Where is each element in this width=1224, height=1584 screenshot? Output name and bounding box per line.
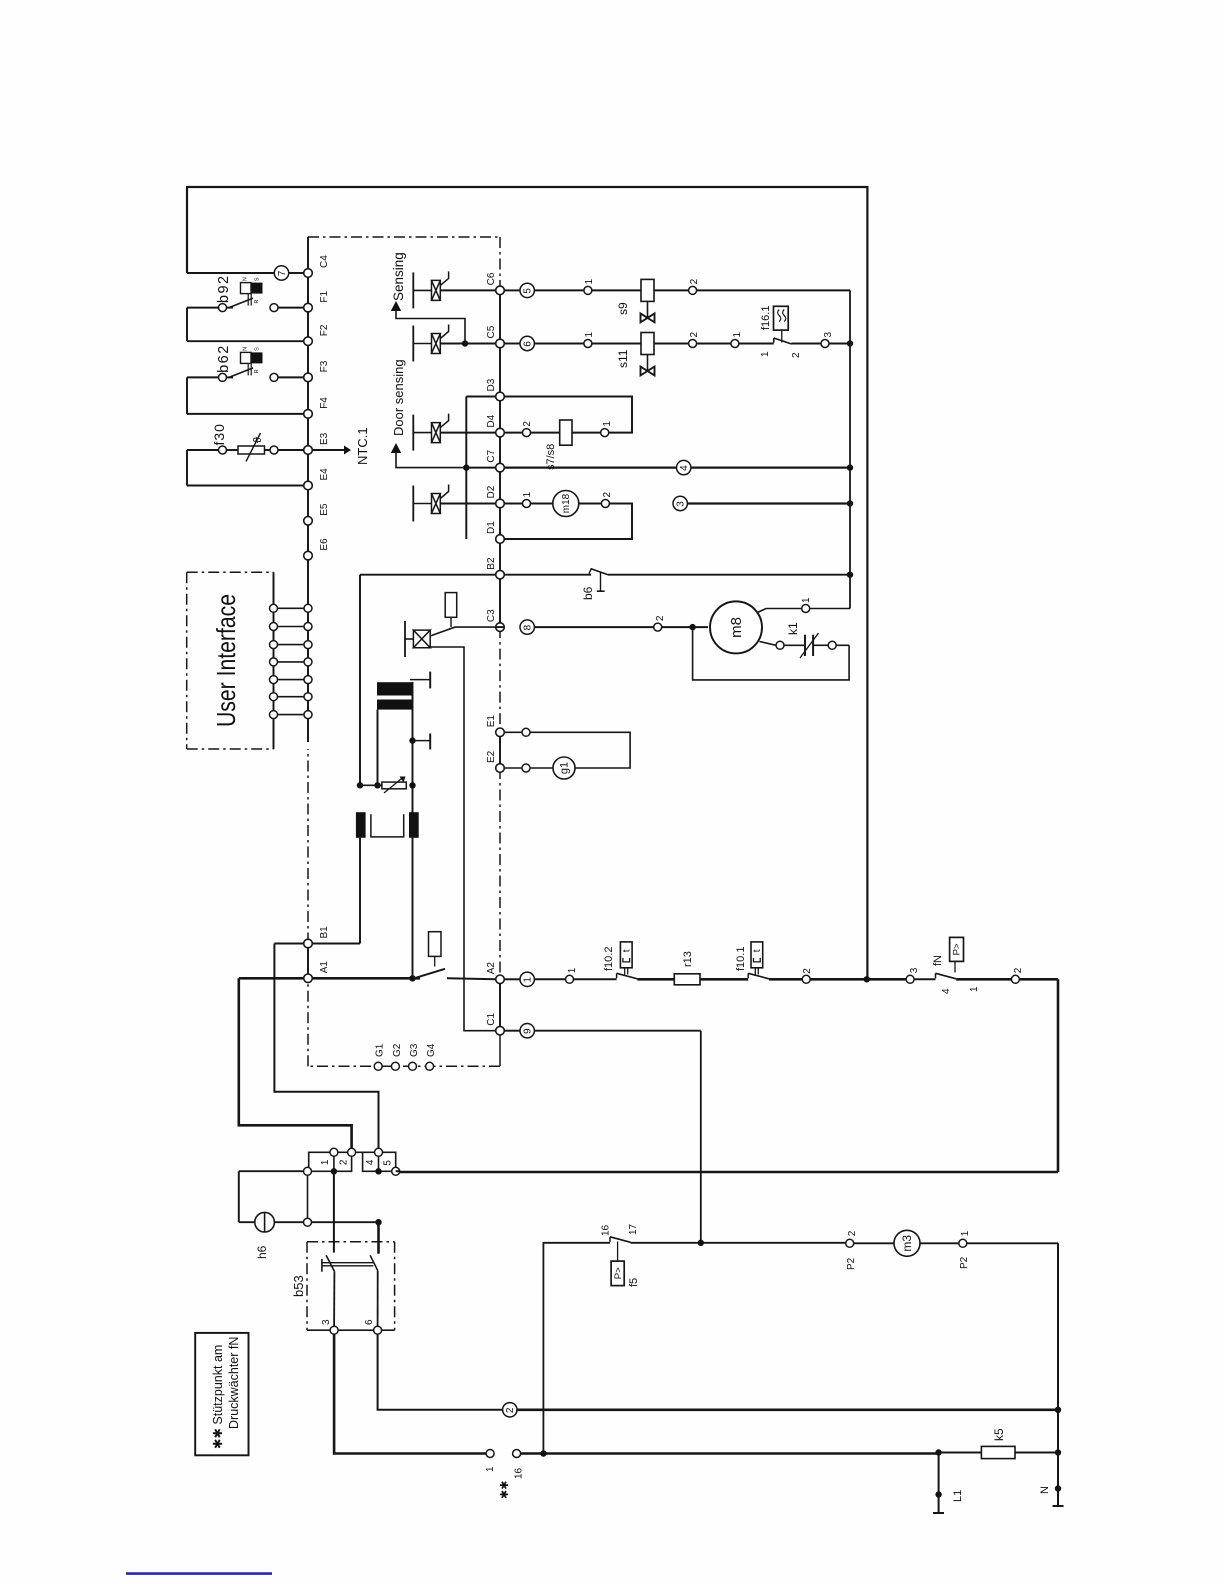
wire E2 row <box>504 767 522 769</box>
terminal b53-6 <box>374 1326 382 1334</box>
wire preset row <box>360 784 382 786</box>
junction C5 right <box>847 340 853 346</box>
switch f10.2 contact arm <box>616 973 618 978</box>
terminal C4 <box>304 269 313 278</box>
junction node3 right <box>847 500 853 506</box>
wire UI ribbon conductor 3 <box>278 644 305 646</box>
svg-text:2: 2 <box>791 352 802 358</box>
terminal C5 <box>496 339 505 348</box>
svg-text:5: 5 <box>383 1160 394 1166</box>
svg-text:E4: E4 <box>319 468 330 481</box>
wire b53 contact2 feed <box>377 1222 380 1254</box>
svg-text:P2: P2 <box>846 1257 857 1270</box>
wire D3-D1 left link <box>465 397 467 540</box>
resistor C3 snubber <box>445 593 457 618</box>
terminal C3 <box>496 623 505 632</box>
pin circle m3-1 <box>959 1239 967 1247</box>
svg-text:b6: b6 <box>581 586 595 600</box>
wire h6 branch <box>239 1170 304 1172</box>
pin circle b92 left <box>219 304 227 312</box>
terminal G2 <box>391 1062 399 1070</box>
svg-text:Druckwächter fN: Druckwächter fN <box>227 1337 241 1429</box>
terminal E2 <box>496 764 505 773</box>
svg-text:8: 8 <box>523 624 534 630</box>
terminal E4 <box>304 481 313 490</box>
pin circle b92 right <box>270 304 278 312</box>
triac for D4 output <box>412 415 414 451</box>
svg-text:1: 1 <box>732 332 743 338</box>
svg-text:s11: s11 <box>616 349 630 368</box>
svg-text:2: 2 <box>689 332 700 338</box>
svg-text:m3: m3 <box>900 1235 914 1252</box>
svg-text:C4: C4 <box>319 255 330 268</box>
wire transformer left winding lead <box>377 710 379 786</box>
terminal C7 <box>496 463 505 472</box>
terminal C6 <box>496 286 505 295</box>
svg-text:B1: B1 <box>319 926 330 939</box>
svg-text:C5: C5 <box>486 325 497 338</box>
wire A2 fN pivot <box>914 978 935 980</box>
svg-text:R: R <box>254 369 260 373</box>
wire C5 row <box>504 343 520 345</box>
svg-text:C1: C1 <box>486 1012 497 1025</box>
terminal F4 <box>304 410 313 419</box>
junction preset row mid <box>374 782 380 788</box>
switch f16.1 contact arm <box>773 338 775 343</box>
junction block bottom-4 <box>375 1168 381 1174</box>
svg-text:F4: F4 <box>319 397 330 409</box>
transformer primary winding bar1 <box>377 682 413 695</box>
terminal A1 <box>304 974 313 983</box>
wire D3 row <box>466 396 496 398</box>
wire UI ribbon conductor 6 <box>278 696 305 698</box>
triac for D2 output <box>412 486 414 522</box>
terminal C1 <box>496 1026 505 1035</box>
wire k1 loop <box>836 644 849 646</box>
transformer core terminal mid <box>409 737 415 743</box>
wire m8 top to node1 <box>758 609 802 613</box>
terminal D1 <box>496 535 505 544</box>
wire C6 row <box>504 289 520 291</box>
svg-text:P>: P> <box>952 943 963 955</box>
transformer secondary winding bar right <box>409 812 419 838</box>
wire B2 row <box>360 574 496 576</box>
svg-text:1: 1 <box>320 1159 331 1165</box>
svg-text:A1: A1 <box>319 961 330 974</box>
wire node2 row <box>517 1409 1058 1412</box>
junction L1 <box>935 1449 941 1455</box>
wire k5 row <box>939 1452 982 1454</box>
wire b53-3 to bottom row <box>334 1334 486 1453</box>
svg-text:D4: D4 <box>486 414 497 427</box>
svg-text:b92: b92 <box>216 274 232 303</box>
junction block bottom-2 <box>331 1168 337 1174</box>
switch b53 contact 2 <box>370 1255 378 1270</box>
svg-text:3: 3 <box>823 332 834 338</box>
wire UI ribbon conductor 2 <box>278 626 305 628</box>
motor m3 <box>894 1230 920 1256</box>
svg-text:7: 7 <box>277 270 288 276</box>
connector block 1-2 <box>309 1152 352 1171</box>
junction C5 sensing <box>462 340 468 346</box>
triac for C3 (power) <box>404 621 406 657</box>
terminal E3 <box>304 446 313 455</box>
pin circle k1 left <box>776 641 784 649</box>
wire secondary link <box>371 814 404 837</box>
svg-text:E5: E5 <box>319 503 330 516</box>
transformer core terminal top <box>410 679 430 681</box>
valve symbol s11 <box>647 355 649 372</box>
switch b92 reed/magnet symbol <box>241 283 252 294</box>
svg-text:1: 1 <box>584 278 595 284</box>
terminal B2 <box>496 570 505 579</box>
pin circle fN-3 <box>906 975 914 983</box>
pin circle m8-1 <box>802 605 810 613</box>
terminal b53-3 <box>330 1326 338 1334</box>
igniter g1 <box>553 757 575 779</box>
svg-text:D2: D2 <box>486 485 497 498</box>
terminal N <box>1057 1453 1059 1489</box>
junction A2 border <box>864 976 870 982</box>
resistor r13 <box>674 974 700 985</box>
junction preset row right <box>409 782 415 788</box>
node 4 <box>677 460 691 474</box>
pin circle m18-1 <box>523 500 531 508</box>
svg-text:E1: E1 <box>486 715 497 728</box>
switch b6 contact arm <box>591 569 608 575</box>
svg-text:A2: A2 <box>486 962 497 975</box>
svg-text:N: N <box>243 347 249 351</box>
wire f30 loop <box>187 449 219 451</box>
node 9 <box>520 1023 534 1037</box>
coil s9 <box>641 279 654 301</box>
wire triac-D4 to terminal <box>440 432 496 434</box>
thermal cutout f30 body <box>238 446 265 454</box>
wire m3 row b <box>920 1242 959 1244</box>
svg-text:1: 1 <box>801 597 812 603</box>
wire f5 row <box>631 1242 701 1244</box>
wire B2 left drop <box>359 575 361 786</box>
wire f5 left drop <box>543 1243 610 1454</box>
wire C4 row <box>187 272 275 274</box>
switch fN contact arm <box>935 973 937 978</box>
pin circle s11-2 <box>689 340 697 348</box>
svg-text:S: S <box>255 347 261 351</box>
terminal B1 <box>304 939 313 948</box>
valve symbol s9 <box>647 301 649 318</box>
svg-text:✱✱ Stützpunkt am: ✱✱ Stützpunkt am <box>211 1345 225 1449</box>
interference suppressor k5 <box>981 1446 1015 1458</box>
junction h6-b53 line <box>375 1219 381 1225</box>
main control board outline (dash-dot) <box>308 236 500 238</box>
wire A2 row segment4 <box>769 978 802 981</box>
terminal E6 <box>304 551 313 560</box>
svg-text:b62: b62 <box>216 344 232 373</box>
pin circle f16.1-out <box>821 340 829 348</box>
pin circle s7s8-2 <box>523 429 531 437</box>
svg-text:m18: m18 <box>561 493 572 513</box>
svg-text:6: 6 <box>523 341 534 347</box>
terminal D2 <box>496 499 505 508</box>
svg-text:E2: E2 <box>486 750 497 763</box>
wire b53-6 to node2 <box>378 1334 505 1410</box>
switch b53 contact 1 <box>326 1255 335 1271</box>
svg-text:P>: P> <box>613 1267 624 1279</box>
pin circle f10.2 in <box>566 975 574 983</box>
wire b62 loop <box>187 376 219 378</box>
wire triac-C5 to terminal <box>440 343 496 345</box>
motor m18 <box>553 491 579 517</box>
triac for C6 output <box>412 272 414 308</box>
svg-text:N: N <box>243 277 249 281</box>
terminal D4 <box>496 428 505 437</box>
svg-text:1: 1 <box>485 1466 496 1472</box>
pin circle m3-2 <box>846 1239 854 1247</box>
junction f5 drop <box>540 1450 546 1456</box>
svg-text:G4: G4 <box>426 1043 437 1057</box>
pin circle block top-2 <box>348 1148 356 1156</box>
svg-text:f10.1: f10.1 <box>735 947 747 971</box>
svg-text:h6: h6 <box>255 1245 269 1259</box>
wire A1 row <box>239 977 304 980</box>
terminal D3 <box>496 392 505 401</box>
svg-text:F2: F2 <box>319 324 330 336</box>
svg-text:3: 3 <box>909 967 920 973</box>
svg-text:ϑ: ϑ <box>252 437 264 443</box>
wire block1 drop <box>307 1175 309 1218</box>
door switch b53 outline (dash-dot) <box>307 1241 395 1243</box>
wire NTC.1 arrow <box>312 449 344 451</box>
user interface board outline (dash-dot) <box>186 572 188 749</box>
svg-text:NTC.1: NTC.1 <box>355 427 370 465</box>
wire right inner vertical <box>849 290 851 608</box>
wire gate vertical <box>430 647 496 1031</box>
svg-text:1: 1 <box>969 986 980 992</box>
svg-text:3: 3 <box>321 1319 332 1325</box>
svg-text:C6: C6 <box>486 272 497 285</box>
terminal G3 <box>409 1062 417 1070</box>
terminal F2 <box>304 337 313 346</box>
terminal F3 <box>304 373 313 382</box>
svg-text:G1: G1 <box>375 1043 386 1057</box>
svg-text:D1: D1 <box>486 521 497 534</box>
svg-text:1: 1 <box>522 492 533 498</box>
pin circle m8-2 <box>654 623 662 631</box>
wire C1 drop to f5 <box>700 1031 702 1243</box>
wire triac-C6 to terminal <box>440 289 496 291</box>
junction k5 right top <box>1055 1449 1061 1455</box>
pin circle f16.1-in <box>731 340 739 348</box>
svg-text:f16.1: f16.1 <box>760 306 772 330</box>
wire E1 row <box>504 731 522 733</box>
svg-text:C3: C3 <box>486 609 497 622</box>
pin circle s9-1 <box>584 286 592 294</box>
pin circle s7s8-1 <box>601 429 609 437</box>
svg-text:B2: B2 <box>486 557 497 570</box>
svg-text:2: 2 <box>505 1407 516 1413</box>
overtemp fuse f10.2 <box>620 942 632 968</box>
pin circle bottom-16 <box>513 1450 521 1458</box>
wire node2-to-k5 vertical <box>1057 1410 1059 1453</box>
svg-text:2: 2 <box>802 968 813 974</box>
pin circle m18-2 <box>601 500 609 508</box>
svg-text:L1: L1 <box>952 1490 964 1502</box>
svg-text:F3: F3 <box>319 360 330 372</box>
svg-text:1: 1 <box>760 351 771 357</box>
svg-text:2: 2 <box>338 1159 349 1165</box>
capacitor k1 <box>804 635 806 656</box>
svg-text:G3: G3 <box>409 1043 420 1057</box>
thermal fuse f16.1 body <box>774 306 789 330</box>
pin circle fN-2 <box>1011 975 1019 983</box>
pressure switch fN body <box>950 937 964 961</box>
svg-text:f10.2: f10.2 <box>603 947 615 971</box>
wire m3 right drop <box>1057 1243 1059 1410</box>
wire triac-D2 to terminal <box>440 503 496 505</box>
pressure switch f5 body <box>611 1261 624 1286</box>
wire C7 row <box>466 467 496 469</box>
terminal E5 <box>304 517 313 526</box>
junction preset row left <box>357 782 363 788</box>
transformer secondary winding bar left <box>356 812 366 838</box>
terminal A2 <box>496 975 505 984</box>
pin circle block bottom-5 <box>392 1167 400 1175</box>
pin circle A2-2a <box>802 975 810 983</box>
svg-text:2: 2 <box>602 492 613 498</box>
pin circle f30 left <box>219 446 227 454</box>
pin circle block top-1 <box>330 1148 338 1156</box>
pin circle s9-2 <box>689 286 697 294</box>
wire b92 loop <box>187 307 219 309</box>
wire node3 row <box>688 502 851 504</box>
wire UI ribbon conductor 7 <box>278 714 305 716</box>
svg-text:G2: G2 <box>392 1043 403 1057</box>
svg-text:2: 2 <box>655 615 666 621</box>
svg-text:6: 6 <box>364 1319 375 1325</box>
wire A2 row segment1 <box>504 978 520 980</box>
relay coil s7/s8 <box>560 420 572 445</box>
svg-text:1: 1 <box>523 977 534 983</box>
pin circle s11-1 <box>584 340 592 348</box>
svg-text:1: 1 <box>602 421 613 427</box>
pin circle k1 right <box>828 641 836 649</box>
wire left lead to B1 <box>359 838 361 944</box>
wire B1 row <box>274 943 304 945</box>
overtemp fuse f10.1 <box>751 942 763 968</box>
wire block top link <box>352 1151 363 1153</box>
svg-text:17: 17 <box>628 1223 639 1235</box>
note box Stuetzpunkt <box>195 1333 248 1455</box>
svg-text:1: 1 <box>567 967 578 973</box>
svg-text:5: 5 <box>523 288 534 294</box>
svg-text:3: 3 <box>676 501 687 507</box>
wire D2 row <box>504 503 523 505</box>
connector block 4-5 <box>363 1152 396 1171</box>
svg-text:k5: k5 <box>992 1428 1006 1441</box>
wire UI ribbon conductor 1 <box>278 607 305 609</box>
svg-text:t: t <box>622 949 633 952</box>
wire sensing arrow <box>391 301 401 311</box>
wire A2 row segment3 <box>700 978 748 981</box>
junction b6 right <box>847 572 853 578</box>
wire m8 bottom to k1 <box>760 642 777 646</box>
pin circle bottom-1 <box>486 1450 494 1458</box>
lamp h6 <box>255 1212 275 1232</box>
node 1 <box>520 972 534 986</box>
wire door-interlock supply row <box>396 1170 400 1172</box>
svg-text:16: 16 <box>514 1467 525 1479</box>
node 6 <box>520 336 534 350</box>
svg-text:g1: g1 <box>559 762 571 774</box>
svg-text:2: 2 <box>522 421 533 427</box>
wire C3 row <box>496 626 504 628</box>
wire triac-C3 connection <box>430 627 496 636</box>
svg-text:f5: f5 <box>628 1278 640 1287</box>
relay contact on A1 <box>414 969 445 979</box>
wire A1 to A2 <box>447 978 496 979</box>
pin circle h6 right <box>304 1218 312 1226</box>
node 7 <box>274 266 288 280</box>
pin circle block top-4 <box>375 1148 383 1156</box>
coil s11 <box>641 333 654 355</box>
node 5 <box>520 283 534 297</box>
svg-text:R: R <box>254 300 260 304</box>
pin circle E2 <box>522 764 530 772</box>
pin circle block bottom-1 <box>304 1167 312 1175</box>
wire right bus (board edge) <box>499 290 501 627</box>
pin circle b62 right <box>270 373 278 381</box>
svg-text:k1: k1 <box>786 622 800 635</box>
node 2 <box>503 1403 517 1417</box>
svg-text:16: 16 <box>601 1224 612 1236</box>
wire door sensing arrow <box>391 443 401 453</box>
svg-text:C7: C7 <box>486 449 497 462</box>
svg-text:F1: F1 <box>319 290 330 302</box>
wire A2 row segment2 <box>637 978 674 981</box>
wire left bus (board edge connector column) <box>307 237 309 742</box>
wire right drop to relay row <box>1057 979 1060 1172</box>
terminal L1 <box>938 1453 940 1495</box>
junction A1 transformer <box>409 975 415 981</box>
wire D4 row <box>504 432 523 434</box>
triac for C5 output <box>412 326 414 362</box>
wire b53 contact1 feed <box>333 1171 335 1252</box>
svg-text:s9: s9 <box>616 302 630 315</box>
svg-text:b53: b53 <box>291 1275 306 1297</box>
svg-text:Door sensing: Door sensing <box>391 359 406 436</box>
svg-text:s7/s8: s7/s8 <box>545 444 557 470</box>
wire B1 drop to lock block <box>274 944 378 1149</box>
junction C7 left <box>463 464 469 470</box>
svg-text:2: 2 <box>689 278 700 284</box>
switch b62 reed/magnet symbol <box>241 352 252 363</box>
motor m8 <box>710 601 762 653</box>
wire b53 bottom edge <box>307 1329 330 1331</box>
wire A1 drop to lock block <box>239 978 352 1148</box>
svg-text:D3: D3 <box>486 378 497 391</box>
svg-text:1: 1 <box>584 332 595 338</box>
node 8 <box>520 620 534 634</box>
wire m3 row a <box>854 1242 894 1244</box>
terminal G4 <box>426 1062 434 1070</box>
svg-text:r13: r13 <box>682 951 694 967</box>
svg-text:fN: fN <box>932 955 944 966</box>
svg-text:4: 4 <box>365 1159 376 1165</box>
wire A2 row segment5 <box>867 978 906 981</box>
svg-text:t: t <box>752 949 763 952</box>
junction node2 right <box>1055 1407 1061 1413</box>
svg-text:Sensing: Sensing <box>391 252 406 301</box>
